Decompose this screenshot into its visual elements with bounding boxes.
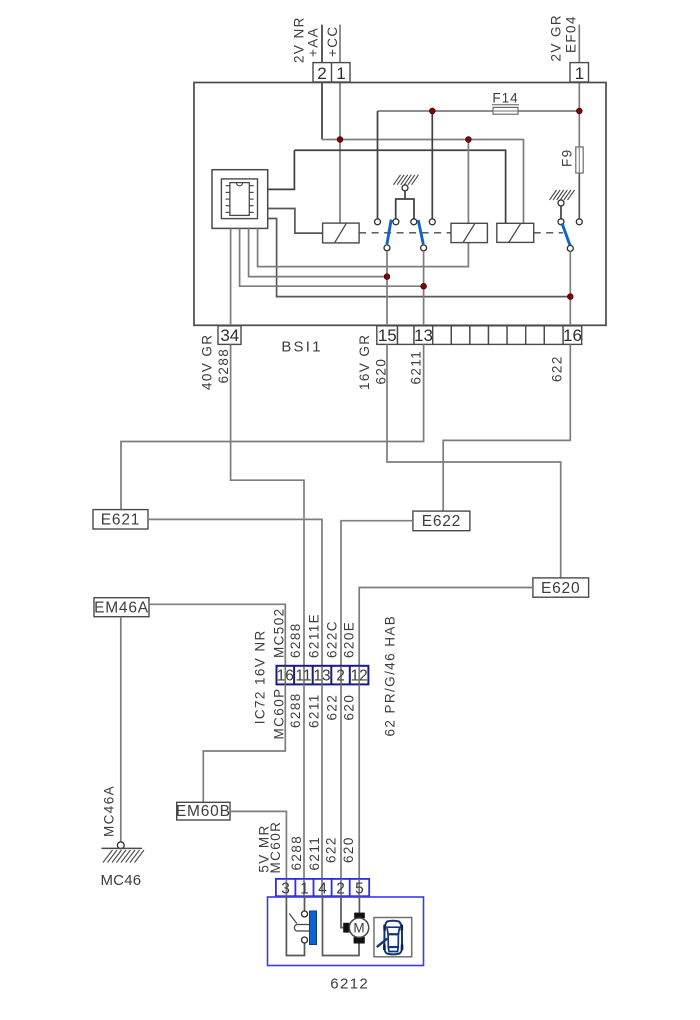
wire ground to fixed contact <box>560 206 562 219</box>
switch fixed contact bottom <box>302 937 308 943</box>
svg-text:11: 11 <box>295 667 311 684</box>
junction dot y276 <box>384 274 390 280</box>
svg-text:6211: 6211 <box>307 836 322 871</box>
motor M1 brushes <box>343 913 365 944</box>
svg-text:622: 622 <box>550 355 565 382</box>
connector pin 1 top right <box>570 63 589 83</box>
svg-text:6288: 6288 <box>288 622 303 658</box>
wire junction x432 to contact <box>431 111 433 219</box>
svg-text:2: 2 <box>336 881 345 898</box>
wire left arm to connector 15 <box>386 251 388 326</box>
svg-text:4: 4 <box>318 881 327 898</box>
connector pin 13 <box>414 326 433 345</box>
wire IC to coil1 left <box>267 209 322 234</box>
IC chip pins left <box>226 186 230 213</box>
wire pin1 to switch top <box>304 896 306 911</box>
svg-text:F9: F9 <box>560 148 575 167</box>
fuse F14 <box>493 107 518 114</box>
relay coil K1 <box>323 223 360 243</box>
ground T branch to both fixed contacts <box>396 191 414 219</box>
svg-text:2: 2 <box>336 667 345 684</box>
connector pin 15 <box>377 326 398 345</box>
wire EF04 vertical x=579 <box>578 25 580 111</box>
svg-text:EM60B: EM60B <box>176 803 231 820</box>
svg-text:BSI1: BSI1 <box>281 339 322 356</box>
splice EM60B <box>176 802 231 820</box>
wire 620 MC502 12 to MC60R 5 <box>358 684 360 879</box>
svg-text:EM46A: EM46A <box>94 599 149 616</box>
ground terminal circle <box>402 185 408 191</box>
wires through MC502 cells <box>285 667 359 683</box>
wire 6288 MC502 11 to MC60R 1 <box>303 684 305 879</box>
wire 6211E E621 to MC502 pin 13 <box>148 519 322 665</box>
svg-text:16: 16 <box>277 667 294 684</box>
wire F14 corner to left contact <box>377 111 379 219</box>
wire IC pin x=239.6 to y286 rail <box>240 228 424 286</box>
svg-text:13: 13 <box>414 326 433 345</box>
svg-text:34: 34 <box>220 326 239 345</box>
ground terminal circle right <box>558 200 564 206</box>
wire 620E E620 to MC502 pin 12 <box>359 588 533 666</box>
wires through MC60R cells <box>286 880 359 895</box>
svg-text:622C: 622C <box>325 620 340 658</box>
MC502 pin numbers <box>277 667 368 684</box>
svg-text:15: 15 <box>378 326 397 345</box>
wire +CC vertical x=340 down to coil1 top <box>339 25 341 224</box>
wire EM60B to MC60R 3 <box>230 811 286 879</box>
wire 622 from pin16 to E622 <box>443 344 570 511</box>
wire +AA horizontal y=139.5 to coil3 drop <box>322 140 524 224</box>
junction dot F14 right <box>577 108 583 114</box>
svg-text:5: 5 <box>355 881 364 898</box>
BSI1 control unit box <box>194 83 606 326</box>
splice E620 <box>533 578 589 597</box>
splice E622 <box>413 511 470 531</box>
wire coil2 top feed <box>467 140 469 224</box>
svg-text:M: M <box>353 921 364 936</box>
svg-text:12: 12 <box>350 667 367 684</box>
IC outer box <box>212 170 268 229</box>
contact arm right (blue) <box>418 220 423 244</box>
car door pointer <box>377 939 388 947</box>
svg-text:1: 1 <box>336 64 345 83</box>
svg-text:MC46: MC46 <box>100 872 141 889</box>
svg-text:MC502: MC502 <box>272 607 287 658</box>
ground hatching MC46 <box>103 850 144 863</box>
switch fixed contact top <box>302 911 308 917</box>
svg-text:622: 622 <box>325 694 340 721</box>
IC inner box <box>221 179 257 219</box>
wire fuse F9 drop x=579.5 <box>578 111 580 147</box>
connector MC502 cells <box>277 666 369 685</box>
contact arm F9 switch (blue) <box>562 223 570 245</box>
relay coil K2 <box>451 223 487 242</box>
ground symbol right side <box>550 190 575 200</box>
svg-text:MC46A: MC46A <box>102 785 117 837</box>
svg-text:620E: 620E <box>342 621 357 658</box>
wire 6211 MC502 13 to MC60R 4 <box>321 684 323 879</box>
wire y=150 rail to coil3 top <box>294 150 505 223</box>
connector pins 2|1 top left <box>313 63 350 83</box>
svg-text:EF04: EF04 <box>564 15 579 53</box>
svg-text:16V GR: 16V GR <box>357 334 372 390</box>
wire IC pin x=257.6 to coil2 bottom <box>258 228 469 266</box>
wire EM46A to MC502 pin 16 <box>149 604 285 666</box>
terminal circle F9 side <box>576 219 582 225</box>
splice EM46A <box>94 598 149 617</box>
svg-text:6212: 6212 <box>330 976 369 993</box>
wire right arm to connector 13 <box>423 251 425 326</box>
svg-text:620: 620 <box>342 694 357 721</box>
connector pin 16 <box>563 326 582 345</box>
mechanical link dashes K1 to contacts <box>359 232 451 234</box>
mechanical link dashes K3 to right contact <box>534 232 563 234</box>
IC chip pins right <box>249 186 253 213</box>
junction dot y296 <box>568 294 574 300</box>
svg-text:+CC: +CC <box>325 25 340 57</box>
wire EM46A to ground MC46 <box>120 617 122 842</box>
svg-text:620: 620 <box>341 836 356 863</box>
wire +AA vertical into pin 2 <box>321 25 323 140</box>
svg-text:6211E: 6211E <box>307 613 322 658</box>
wire pin3 loop to switch bottom <box>286 896 304 955</box>
svg-text:40V GR: 40V GR <box>200 334 215 390</box>
svg-text:6288: 6288 <box>288 692 303 728</box>
svg-text:F14: F14 <box>492 91 518 106</box>
svg-text:622: 622 <box>324 836 339 863</box>
switch actuator bar (blue) <box>310 911 317 945</box>
svg-text:E620: E620 <box>541 580 580 597</box>
svg-text:2: 2 <box>317 64 326 83</box>
splice E621 <box>93 510 148 529</box>
MC60R pin numbers <box>281 881 363 898</box>
car pictogram frame <box>374 918 412 957</box>
ground symbol inside BSI (middle) <box>394 175 419 185</box>
car pictogram (top view) <box>384 921 402 955</box>
relay coil K3 <box>497 223 534 242</box>
svg-text:E621: E621 <box>101 512 140 529</box>
wire IC inner to y296 rail <box>268 219 571 297</box>
connector MC60R cells <box>276 879 369 896</box>
ground terminal circle MC46 <box>117 842 124 849</box>
wire 6288 from pin34 to MC502 pin 11 <box>231 344 304 665</box>
wire right switch to connector 16 <box>569 251 571 325</box>
fuse F9 <box>576 147 583 173</box>
svg-text:6288: 6288 <box>216 348 231 384</box>
connector empty cells row <box>433 326 563 345</box>
wire pin5 to motor top brush <box>358 896 360 912</box>
svg-text:IC72 16V NR: IC72 16V NR <box>253 629 268 724</box>
motor M1 <box>349 918 368 937</box>
contact terminal circles row <box>375 219 381 225</box>
svg-text:16: 16 <box>563 326 582 345</box>
device 6212 box <box>268 897 424 966</box>
wire 622 MC502 2 to MC60R 2 <box>340 684 342 879</box>
svg-text:E622: E622 <box>422 513 461 530</box>
wire 622C E622 to MC502 pin 2 <box>341 521 413 666</box>
wire MC502 16 to EM60B <box>203 684 285 802</box>
wire F14 feed y=111 <box>378 110 494 112</box>
wire pin2 to motor left brush <box>341 896 343 927</box>
switch lever and pushrod <box>289 914 309 932</box>
wire pin4 loop to motor bottom <box>323 896 360 955</box>
svg-text:3: 3 <box>281 881 290 898</box>
IC chip body U1 <box>230 183 249 216</box>
wire 620 from pin15 to E620 <box>387 344 561 578</box>
car wheels <box>384 925 402 950</box>
svg-text:6211: 6211 <box>307 693 322 728</box>
moving contact pivot circles <box>384 245 390 251</box>
svg-text:6211: 6211 <box>409 350 424 385</box>
pivot circle F9 switch <box>567 245 573 251</box>
svg-text:MC60P: MC60P <box>272 687 287 739</box>
svg-text:1: 1 <box>575 64 584 83</box>
wire IC pin x=248.6 to y276 rail <box>249 228 387 276</box>
wire IC pin drop x=230.6 to connector 34 <box>230 228 232 325</box>
fixed contact circle right switch <box>558 219 564 225</box>
ground bar MC46 <box>102 847 143 849</box>
svg-text:6288: 6288 <box>289 835 304 871</box>
svg-text:MC60R: MC60R <box>268 821 283 874</box>
wire IC pin to y150 rail <box>267 150 294 189</box>
svg-text:2V GR: 2V GR <box>549 14 564 62</box>
junction dot coil2 feed <box>466 137 472 143</box>
svg-text:+AA: +AA <box>306 27 321 57</box>
contact arm left (blue) <box>387 220 391 245</box>
connector empty cell <box>398 326 415 345</box>
svg-text:13: 13 <box>313 667 330 684</box>
connector pin 34 <box>218 326 241 345</box>
wire F9 to contact terminal <box>578 173 580 219</box>
svg-text:62 PR/G/46 HAB: 62 PR/G/46 HAB <box>383 615 398 737</box>
svg-text:2V NR: 2V NR <box>292 16 307 63</box>
junction dot +CC node <box>337 137 343 143</box>
svg-text:1: 1 <box>300 881 309 898</box>
junction dot y286 <box>421 283 427 289</box>
wire 6211 from pin13 to E621 <box>121 344 424 509</box>
junction dot F14 left <box>430 108 436 114</box>
